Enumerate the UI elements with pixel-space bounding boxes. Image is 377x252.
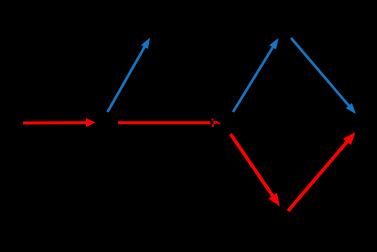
red arrow A (incoming horizontal) <box>23 118 96 127</box>
blue arrow C (up-right from first vertex) <box>108 38 151 113</box>
blue arrow E (down-right from apex) <box>291 38 356 114</box>
red arrow G (up-right to right vertex) <box>288 132 356 211</box>
red dotted arrowhead at end of wire B <box>212 119 221 127</box>
blue arrow D (up-right from second vertex) <box>233 38 279 112</box>
red wire B (horizontal segment to second vertex) <box>118 121 211 124</box>
red arrow F (down-right from second vertex) <box>231 134 281 207</box>
